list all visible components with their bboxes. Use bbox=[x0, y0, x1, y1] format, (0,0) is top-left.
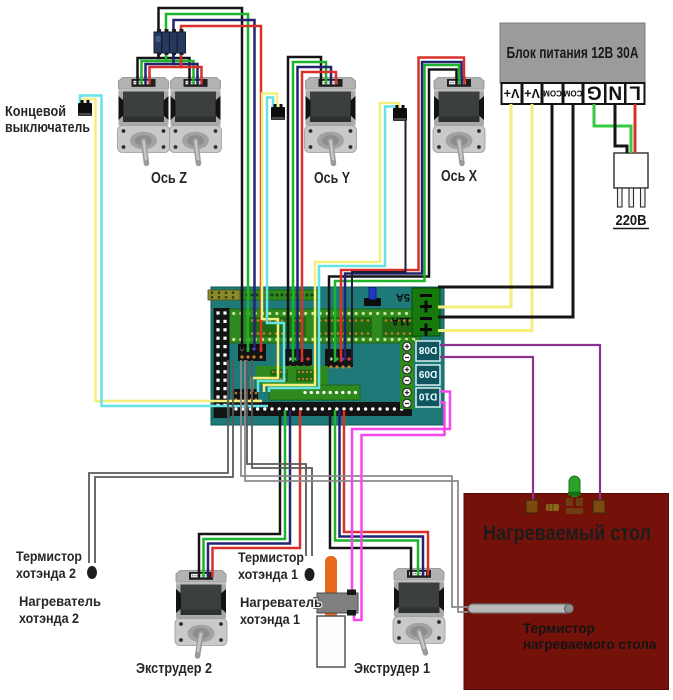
svg-text:V+: V+ bbox=[504, 86, 520, 100]
svg-text:хотэнда 2: хотэнда 2 bbox=[16, 565, 76, 581]
heated bed "Нагреваемый стол" bbox=[464, 494, 669, 690]
stepper motor Z2 (right, axis Z) bbox=[170, 78, 222, 164]
svg-text:нагреваемого стола: нагреваемого стола bbox=[523, 637, 657, 652]
label bed thermistor bbox=[523, 621, 657, 652]
wire splitter to motor Z2 (blue) bbox=[174, 53, 198, 84]
bed power pad left bbox=[526, 500, 538, 513]
bottom long pin strip bbox=[230, 402, 412, 416]
wire board to extruder2 motor (green) bbox=[204, 410, 286, 575]
wire thermistor hotend 1 (gray B) bbox=[252, 360, 312, 556]
hotend barrel (white) bbox=[317, 616, 345, 667]
wire splitter to motor Z1 (red) bbox=[150, 53, 182, 84]
stepper driver module A4988 #1 bbox=[248, 317, 306, 337]
wire board to extruder2 motor (blue) bbox=[208, 410, 290, 575]
svg-text:Блок питания 12В 30А: Блок питания 12В 30А bbox=[507, 45, 639, 62]
svg-text:D10: D10 bbox=[418, 391, 437, 402]
wire board to extruder1 motor (blue) bbox=[340, 410, 424, 573]
bottom strip pin row bbox=[234, 407, 403, 410]
bed resistor bbox=[546, 504, 559, 511]
wire splitter to motor Z2 (red) bbox=[181, 53, 202, 84]
wire D08 to bed (purple A) bbox=[440, 345, 600, 503]
svg-text:выключатель: выключатель bbox=[5, 120, 90, 136]
wire endstop 3 common (dark) bbox=[352, 120, 406, 362]
stepper motor Z1 (left, axis Z) bbox=[118, 78, 170, 164]
motor Y connector wire stubs bbox=[321, 76, 336, 85]
bed power pad right bbox=[593, 500, 605, 513]
wire endstop 1 (yellow) bbox=[84, 99, 262, 401]
wire board to extruder1 motor (green) bbox=[335, 410, 418, 573]
limit switch 2 (Y axis) bbox=[271, 104, 285, 120]
hotend heater cartridge (orange) bbox=[325, 556, 337, 620]
left dual-row pin header bbox=[214, 308, 230, 418]
stepper driver module A4988 #3 bbox=[382, 317, 418, 337]
svg-text:Термистор: Термистор bbox=[523, 621, 595, 636]
svg-text:G: G bbox=[587, 82, 602, 103]
wire Z splitter to board (black) bbox=[159, 8, 243, 350]
svg-text:хотэнда 1: хотэнда 1 bbox=[240, 611, 300, 627]
wire board to extruder2 motor (red) bbox=[213, 410, 301, 575]
wire endstop 3 (cyan) bbox=[269, 107, 395, 393]
driver strip upper pin row bbox=[225, 312, 415, 315]
wire motor X to board (red) bbox=[341, 58, 464, 363]
Y motor output header bbox=[284, 349, 313, 369]
label extruder 2 bbox=[136, 661, 212, 677]
wire motor X to board (blue) bbox=[345, 62, 462, 360]
wire endstop 3 (yellow) bbox=[264, 103, 399, 392]
limit switch 3 (X axis) bbox=[393, 105, 407, 121]
thermistor hotend 1 probe bbox=[305, 568, 315, 581]
stepper driver sockets strip bbox=[222, 309, 420, 343]
wire splitter to motor Z2 (black) bbox=[159, 53, 190, 84]
wire PSU L to plug (red) bbox=[634, 104, 637, 153]
reset button (blue) bbox=[364, 288, 381, 307]
power supply unit PSU "Блок питания 12В 30А" bbox=[500, 23, 645, 83]
wire motor Y to board (green) bbox=[293, 62, 326, 362]
D08 output block bbox=[416, 341, 440, 361]
extruder 2 connector wire stubs bbox=[199, 569, 213, 578]
label axis X bbox=[441, 168, 478, 185]
wire motor Y to board (blue) bbox=[298, 67, 332, 360]
wire board to extruder2 motor (black) bbox=[199, 410, 280, 575]
wire motor Y to board (black) bbox=[288, 57, 321, 360]
driver strip lower pin row bbox=[225, 338, 415, 341]
X motor output header bbox=[325, 349, 353, 369]
svg-text:V+: V+ bbox=[524, 86, 540, 100]
motor Z1 connector wire stubs bbox=[138, 76, 150, 85]
power terminal block 5A/11A bbox=[412, 288, 440, 336]
wire PSU G to plug (green) bbox=[594, 104, 631, 153]
wire splitter to motor Z1 (blue) bbox=[146, 53, 174, 84]
wire Z splitter to board (green) bbox=[166, 14, 248, 352]
label heater hotend 1 bbox=[240, 594, 322, 627]
svg-text:220В: 220В bbox=[616, 213, 647, 229]
label heated bed bbox=[483, 522, 651, 545]
stepper motor extruder 1 bbox=[393, 569, 445, 654]
wire Z splitter to board (blue) bbox=[174, 20, 255, 348]
wire thermistor hotend 1 (gray A) bbox=[247, 360, 306, 556]
wire D10 to hotend heater (magenta B) bbox=[354, 403, 445, 621]
wire D09 to bed (purple B) bbox=[440, 357, 533, 503]
svg-text:Экструдер 1: Экструдер 1 bbox=[354, 661, 430, 677]
wire board to extruder1 motor (black) bbox=[330, 410, 411, 573]
svg-text:Ось Z: Ось Z bbox=[151, 170, 187, 187]
svg-text:5А: 5А bbox=[396, 291, 410, 303]
wire PSU COM2 to board 11A- (black) bbox=[438, 104, 573, 317]
svg-text:хотэнда 2: хотэнда 2 bbox=[19, 610, 79, 626]
label 11A (rotated) bbox=[391, 315, 411, 327]
wire splitter to motor Z1 (green) bbox=[142, 53, 167, 84]
svg-text:N: N bbox=[608, 82, 622, 103]
wire splitter to motor Z1 (black) bbox=[138, 53, 159, 84]
wire PSU +V2 to board 11A+ (yellow) bbox=[438, 104, 532, 331]
wire endstop 2 (cyan) bbox=[258, 98, 284, 393]
bed thermistor probe bbox=[468, 604, 574, 613]
wire board to extruder1 motor (red) bbox=[344, 410, 428, 573]
label thermistor hotend 1 bbox=[238, 549, 304, 582]
left header pin column B bbox=[223, 311, 226, 407]
terminal splitter block (Z motors) bbox=[154, 29, 186, 55]
svg-text:Ось X: Ось X bbox=[441, 168, 478, 185]
wire PSU COM1 to board 5A- (black) bbox=[438, 104, 552, 287]
svg-text:Термистор: Термистор bbox=[16, 548, 82, 564]
label limit switch bbox=[5, 104, 90, 136]
screw terminal circles column bbox=[400, 340, 414, 409]
lower header pin row bbox=[303, 391, 357, 394]
thermistor hotend 2 probe bbox=[87, 566, 97, 579]
label 220V bbox=[613, 213, 649, 229]
wire PSU N to plug (black) bbox=[615, 104, 627, 153]
wire D10 to hotend heater (magenta A) bbox=[352, 392, 450, 592]
wire motor X to board (black) bbox=[329, 70, 457, 363]
wire splitter to motor Z2 (green) bbox=[166, 53, 194, 84]
label axis Y bbox=[314, 170, 351, 187]
svg-text:Нагреватель: Нагреватель bbox=[19, 593, 101, 609]
wire PSU +V1 to board 5A+ (yellow) bbox=[438, 104, 511, 307]
PCB top green header bbox=[243, 290, 318, 300]
label extruder 1 bbox=[354, 661, 430, 677]
D09 output block bbox=[416, 365, 440, 385]
svg-text:хотэнда 1: хотэнда 1 bbox=[238, 566, 298, 582]
label axis Z bbox=[151, 170, 187, 187]
wire endstop 1 (cyan) bbox=[80, 96, 268, 407]
wire bed thermistor (gray A) bbox=[241, 360, 468, 607]
stepper motor extruder 2 bbox=[175, 571, 227, 657]
wire endstop 2 (yellow) bbox=[252, 94, 278, 393]
svg-text:Термистор: Термистор bbox=[238, 549, 304, 565]
svg-text:Нагреватель: Нагреватель bbox=[240, 594, 322, 610]
Z motor output header bbox=[238, 344, 266, 361]
stepper motor X bbox=[433, 78, 485, 164]
bed LED (green) bbox=[568, 476, 581, 497]
motor X connector wire stubs bbox=[457, 76, 465, 85]
wire motor X to board (green) bbox=[335, 65, 459, 362]
wire thermistor hotend 2 (gray A) bbox=[89, 360, 228, 563]
stepper driver module A4988 #2 bbox=[316, 317, 372, 337]
controller board RAMPS (PCB) bbox=[211, 287, 444, 425]
wire motor Y to board (red) bbox=[302, 72, 336, 362]
wire Z splitter to board (red) bbox=[181, 26, 261, 352]
svg-text:COM: COM bbox=[543, 89, 562, 98]
label heater hotend 2 bbox=[19, 593, 101, 626]
left header pin column A bbox=[216, 311, 219, 407]
svg-text:D08: D08 bbox=[418, 344, 437, 355]
PSU terminal strip bbox=[502, 82, 645, 104]
endstop header cluster bbox=[232, 389, 258, 404]
svg-text:L: L bbox=[629, 82, 641, 103]
motor Z2 connector wire stubs bbox=[190, 76, 202, 85]
PCB power input connector (olive) bbox=[208, 290, 240, 300]
extruder 1 connector wire stubs bbox=[411, 567, 428, 576]
lower green header block bbox=[269, 385, 360, 400]
limit switch 1 (Концевой выключатель) bbox=[78, 100, 92, 116]
svg-text:COM: COM bbox=[563, 89, 582, 98]
svg-text:Ось Y: Ось Y bbox=[314, 170, 351, 187]
svg-text:Нагреваемый стол: Нагреваемый стол bbox=[483, 522, 651, 545]
wire bed thermistor (gray B) bbox=[245, 360, 468, 612]
svg-text:11А: 11А bbox=[391, 315, 411, 327]
D10 output block bbox=[416, 388, 440, 407]
stepper motor Y bbox=[305, 78, 357, 164]
hotend heater block bbox=[313, 590, 358, 616]
wire thermistor hotend 2 (gray B) bbox=[95, 360, 233, 563]
label thermistor hotend 2 bbox=[16, 548, 82, 581]
bed LED pads bbox=[566, 498, 583, 514]
svg-text:D09: D09 bbox=[418, 368, 437, 379]
label 5A (rotated) bbox=[396, 291, 410, 303]
svg-text:Экструдер 2: Экструдер 2 bbox=[136, 661, 212, 677]
mid green IC area bbox=[256, 366, 328, 385]
svg-text:Концевой: Концевой bbox=[5, 104, 66, 120]
220V mains plug bbox=[614, 153, 648, 207]
